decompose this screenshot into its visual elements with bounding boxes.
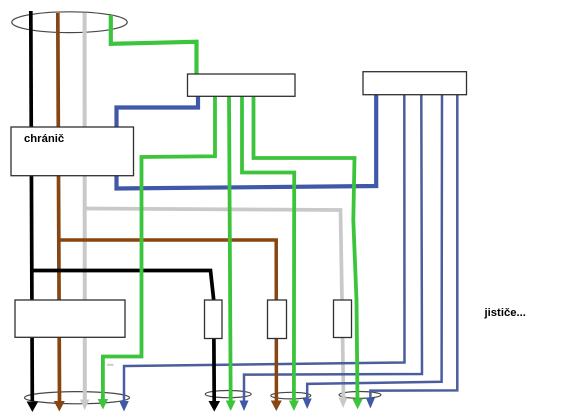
bottom outlet ellipse 2 — [205, 391, 251, 398]
wire grey main vertical — [83, 13, 87, 400]
faint grey mark near blue corner — [107, 364, 114, 366]
small breaker box 2 — [268, 300, 287, 339]
bottom big outlet ellipse — [25, 392, 130, 404]
arrow green at outlet 2 — [226, 401, 236, 412]
arrow green at big outlet — [98, 399, 108, 410]
arrow brown at big outlet — [54, 401, 65, 412]
wire blue 5 breaker strip to outlet 4 — [370, 94, 457, 399]
wire black branch to breaker box 1 — [31, 271, 214, 402]
wire green 2 to outlet 2 — [229, 96, 231, 401]
wire brown main vertical — [58, 13, 60, 401]
arrow grey at big outlet — [80, 400, 89, 411]
label jistice — [485, 307, 526, 319]
arrow blue at outlet 4 — [366, 398, 375, 409]
distribution terminal box top middle — [188, 74, 296, 96]
arrow blue at outlet 3 — [303, 399, 312, 410]
arrow green at outlet 4 — [352, 399, 362, 410]
breaker strip box top right — [363, 72, 467, 95]
wire green 3 to outlet 3 — [242, 96, 294, 401]
arrow brown at outlet 3 — [271, 401, 282, 412]
arrow blue at outlet 2 — [240, 401, 249, 412]
label chranic — [24, 133, 64, 145]
arrow green at outlet 3 — [289, 401, 299, 412]
small breaker box 1 — [205, 300, 223, 339]
wire grey branch to breaker box 3 — [85, 209, 344, 400]
wire green 1 from distribution box to big outlet — [103, 96, 215, 400]
wire blue 4 breaker strip to outlet 3 — [307, 94, 442, 400]
wire blue 3 breaker strip to outlet 2 — [244, 94, 422, 401]
wire green 4 to outlet 4 — [254, 96, 358, 401]
arrow black at outlet 2 — [209, 401, 221, 412]
small breaker box 3 — [334, 300, 352, 338]
wire black phase main vertical — [31, 11, 33, 401]
arrow black at big outlet — [27, 402, 39, 413]
arrow grey at outlet 4 — [339, 398, 348, 409]
wire brown branch to breaker box 2 — [58, 240, 276, 401]
bottom outlet ellipse 3 — [271, 392, 311, 399]
arrow blue at big outlet — [119, 401, 129, 412]
top supply cable ellipse — [12, 12, 127, 33]
wire green feed from cable to distribution box — [111, 15, 197, 74]
bottom left breaker box — [15, 300, 125, 337]
wire blue thick distribution box to breaker strip via chranic — [117, 94, 377, 189]
wire blue 2 breaker strip to big outlet — [124, 94, 405, 401]
chranic RCD box — [11, 127, 134, 176]
bottom outlet ellipse 4 — [339, 392, 381, 399]
